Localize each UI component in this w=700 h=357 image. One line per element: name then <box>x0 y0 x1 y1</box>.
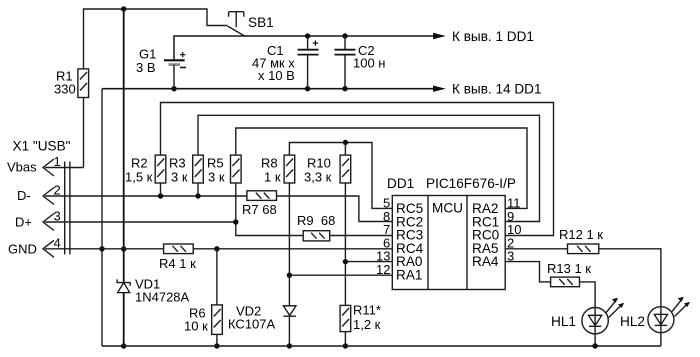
svg-text:3: 3 <box>54 209 61 224</box>
pin 1 chevron <box>43 159 54 176</box>
svg-text:R12 1 к: R12 1 к <box>559 227 603 242</box>
wire: pin 1 line <box>45 167 84 169</box>
resistor R2 <box>155 155 166 183</box>
wire: HL1 bottom to rail <box>594 334 596 346</box>
svg-text:1 к: 1 к <box>264 170 281 185</box>
wire: RC1 net L2 from R3 top to MCU pin 9 <box>198 115 540 221</box>
svg-text:12: 12 <box>376 262 390 277</box>
wire: MCU pin 3 RA4 down to R13 <box>505 262 550 282</box>
wire: ground rail to arrow (pin 14 DD1) <box>102 88 433 90</box>
svg-text:PIC16F676-I/P: PIC16F676-I/P <box>426 176 516 191</box>
junction dot C1 bottom <box>305 86 310 91</box>
svg-text:1N4728A: 1N4728A <box>135 290 190 305</box>
resistor R4 <box>164 244 194 254</box>
wire: GND line to VD1 cathode <box>123 249 125 283</box>
resistor R6 <box>212 305 223 335</box>
svg-text:R4 1 к: R4 1 к <box>159 256 196 271</box>
svg-text:R9 68: R9 68 <box>297 213 335 228</box>
resistor R11 <box>340 305 351 331</box>
node A junction dot on top bus <box>121 6 126 11</box>
junction dot C1 top <box>305 33 310 38</box>
wire: D- line from pin 2 to R7 <box>45 195 247 197</box>
wire: node A vertical down to GND line (VD1 cathode branch) <box>123 9 125 249</box>
svg-text:HL2: HL2 <box>620 314 645 329</box>
arrow to pin 14 DD1 <box>433 86 446 92</box>
resistor R8 <box>284 155 295 183</box>
svg-text:X1 "USB": X1 "USB" <box>13 139 71 154</box>
wire: ground vertical from rail corner down to bottom rail <box>101 89 103 346</box>
wire: battery minus to ground rail <box>173 65 175 89</box>
LED HL1 <box>582 298 624 334</box>
pushbutton SB1 <box>228 12 245 36</box>
wire: VD1 anode to bottom rail <box>123 293 125 346</box>
junction dot node A / GND line <box>121 246 126 251</box>
wire: VD2 anode to bottom rail <box>288 316 290 346</box>
junction dot HL1 on bottom rail <box>592 343 597 348</box>
svg-text:R3: R3 <box>169 156 186 171</box>
wire: RA2 net L3 from R5 top to MCU pin 11 <box>236 128 527 208</box>
wire: R10 top to L4 <box>344 143 346 156</box>
wire: R4 right to MCU pin 6 RC4 <box>193 248 392 250</box>
pin 2 chevron <box>43 188 54 205</box>
wire: R12 right to HL2 top <box>599 249 661 307</box>
bottom ground rail <box>102 345 661 347</box>
svg-text:SB1: SB1 <box>248 15 274 30</box>
pin 4 chevron <box>43 240 54 257</box>
svg-text:R13 1 к: R13 1 к <box>547 261 591 276</box>
svg-text:1,2 к: 1,2 к <box>353 317 381 332</box>
junction dot R5 on D+ <box>233 219 238 224</box>
wire: MCU pin 13 RA0 to R10/R11 node <box>345 261 392 263</box>
svg-text:3 В: 3 В <box>136 60 156 75</box>
MCU DD1 box <box>392 196 505 290</box>
wire: R10 bottom down to R11 top <box>344 183 346 305</box>
junction dot R11 on bottom rail <box>343 343 348 348</box>
battery G1 <box>164 52 186 68</box>
svg-text:3 к: 3 к <box>171 170 188 185</box>
resistor R10 <box>340 155 351 183</box>
wire: R6 bottom to rail <box>216 334 218 346</box>
wire: RC5 net L4 from R8 top to MCU pin 5 <box>289 143 392 209</box>
junction dot C2 bottom <box>342 86 347 91</box>
svg-text:х 10 В: х 10 В <box>258 68 295 83</box>
wire: R9 right to MCU pin 7 RC3 <box>330 235 393 237</box>
svg-text:330: 330 <box>54 82 76 97</box>
svg-text:Vbas: Vbas <box>7 160 37 175</box>
svg-text:3 к: 3 к <box>208 170 225 185</box>
svg-text:D+: D+ <box>15 215 32 230</box>
resistor R5 <box>231 155 242 183</box>
svg-text:3,3 к: 3,3 к <box>304 170 332 185</box>
svg-text:КС107А: КС107А <box>228 317 276 332</box>
svg-text:R2: R2 <box>131 156 148 171</box>
wire: RC0 net L1 from R2 top to MCU pin 10 <box>161 103 554 236</box>
resistor R1 <box>78 69 89 98</box>
wire: R13 right to HL1 top <box>580 282 596 308</box>
svg-text:MCU: MCU <box>432 201 463 216</box>
wire: R5 bottom to D+ <box>235 183 237 222</box>
resistor R7 <box>247 191 277 201</box>
junction dot R6 top <box>214 246 219 251</box>
junction dot ground vertical / GND pin line <box>99 246 104 251</box>
svg-text:R5: R5 <box>207 156 224 171</box>
connector X1 USB body <box>65 162 70 255</box>
svg-text:100 н: 100 н <box>353 56 385 71</box>
svg-text:D-: D- <box>17 188 31 203</box>
wire: R8 bottom down to VD2 cathode node <box>288 183 290 306</box>
wire: HL2 bottom to rail end <box>660 333 662 346</box>
svg-text:RA1: RA1 <box>396 268 422 283</box>
resistor R12 <box>568 244 599 254</box>
svg-text:HL1: HL1 <box>551 314 576 329</box>
svg-text:К выв. 1 DD1: К выв. 1 DD1 <box>452 29 534 44</box>
resistor R3 <box>193 155 204 183</box>
svg-text:2: 2 <box>54 183 61 198</box>
wire: D+ line from pin 3 to R5 node then jog down to R9 <box>45 222 303 236</box>
capacitor C2 <box>335 36 356 89</box>
wire: MCU pin 2 RA5 to R12 <box>505 248 567 250</box>
junction dot RA0 pin 13 node <box>343 259 348 264</box>
svg-text:1,5 к: 1,5 к <box>125 170 153 185</box>
wire: top bus from R1 top to SB1 left contact <box>84 9 228 69</box>
svg-text:К выв. 14 DD1: К выв. 14 DD1 <box>452 82 542 97</box>
junction dot VD1 on bottom rail <box>121 343 126 348</box>
junction dot C2 top <box>342 33 347 38</box>
wire: R3 bottom to D- <box>197 183 199 196</box>
wire: MCU pin 12 RA1 to VD2 node <box>289 274 392 276</box>
junction dot RA1 pin 12 on VD2 branch <box>287 273 292 278</box>
wire: +V rail from battery top through C1 C2 to arrow (pin 1 DD1) <box>174 36 433 60</box>
svg-text:RA4: RA4 <box>472 254 499 269</box>
capacitor C1 <box>298 36 319 89</box>
junction dot VD2 on bottom rail <box>287 343 292 348</box>
LED HL2 <box>648 297 690 333</box>
svg-text:GND: GND <box>8 242 37 257</box>
wire: R7 right jog down to MCU pin 8 RC2 <box>277 196 393 222</box>
pin 3 chevron <box>43 214 54 231</box>
junction dot R2 on D- <box>158 193 163 198</box>
svg-text:R8: R8 <box>261 156 278 171</box>
zener diode VD1 <box>117 279 130 292</box>
svg-text:DD1: DD1 <box>387 176 414 191</box>
junction dot R3 on D- <box>195 193 200 198</box>
junction dot battery on ground rail <box>171 86 176 91</box>
wire: R6 top to GND line <box>216 249 218 305</box>
svg-text:R11*: R11* <box>353 303 381 318</box>
junction dot R10 top on L4 <box>343 140 348 145</box>
diode VD2 <box>283 306 296 316</box>
wire: R11 bottom to rail <box>344 332 346 346</box>
resistor R13 <box>551 277 580 287</box>
svg-text:1: 1 <box>54 154 61 169</box>
junction dot R6 on bottom rail <box>214 343 219 348</box>
wire: GND pin line to R4 <box>45 248 164 250</box>
wire: R2 bottom to D- <box>160 183 162 196</box>
svg-text:R10: R10 <box>307 156 331 171</box>
wire: R1 bottom to Vbus pin 1 <box>83 98 85 168</box>
resistor R9 <box>303 231 330 241</box>
svg-text:R7 68: R7 68 <box>242 202 277 217</box>
svg-text:10 к: 10 к <box>184 319 208 334</box>
arrow to pin 1 DD1 <box>433 33 446 39</box>
